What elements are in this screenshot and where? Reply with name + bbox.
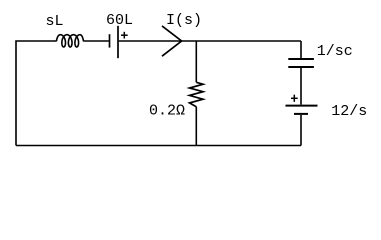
resistor 0.2ohm (190, 82, 204, 106)
svg-text:1/sc: 1/sc (317, 43, 353, 60)
capacitor 1/sc (288, 59, 314, 67)
svg-text:0.2Ω: 0.2Ω (149, 103, 185, 120)
battery 60L (110, 26, 119, 58)
battery plus sign (291, 95, 298, 102)
svg-text:12/s: 12/s (331, 103, 367, 120)
battery plus sign (121, 32, 128, 39)
wire resistor branch bottom (195, 107, 197, 146)
svg-text:I(s): I(s) (166, 12, 202, 29)
inductor sL (56, 35, 83, 47)
wire bottom (16, 145, 301, 147)
wire (119, 40, 301, 42)
battery 12/s (286, 106, 318, 114)
wire resistor branch top (195, 41, 197, 82)
wire right branch top (300, 41, 302, 58)
wire (300, 68, 302, 105)
wire (83, 40, 109, 42)
svg-text:sL: sL (46, 13, 64, 30)
wire (300, 115, 302, 146)
wire (16, 41, 57, 146)
current arrow I(s) (162, 26, 182, 56)
svg-text:60L: 60L (106, 12, 133, 29)
